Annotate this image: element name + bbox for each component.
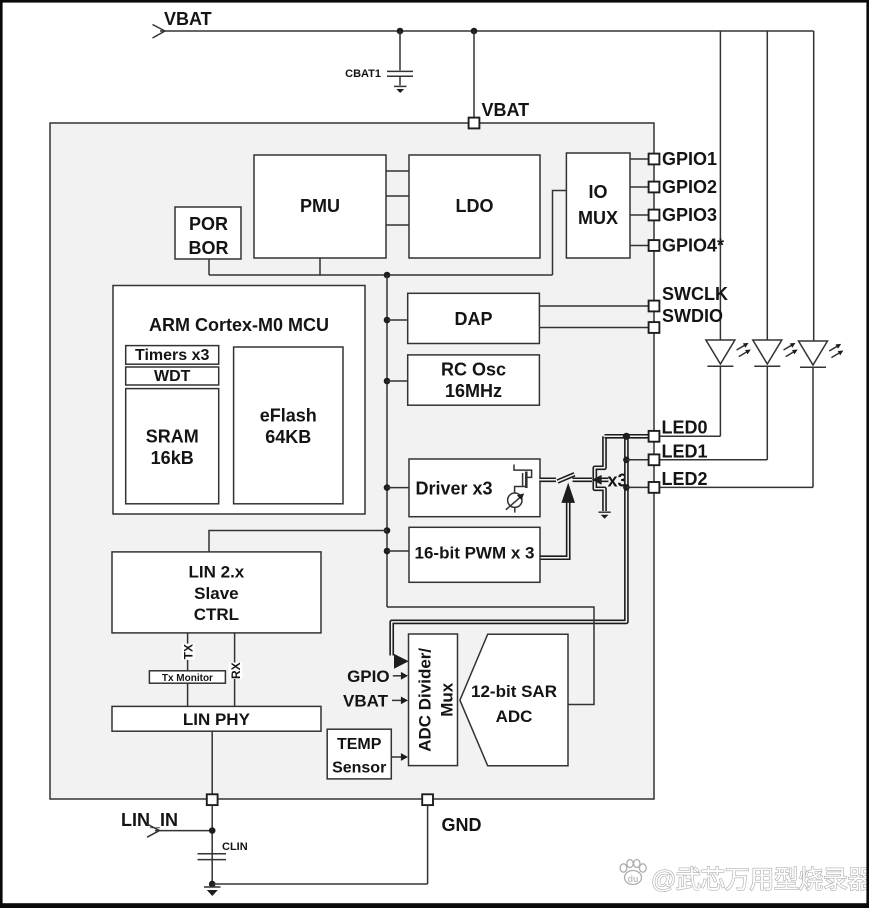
wire LED0 right xyxy=(659,435,720,437)
junction bundle top xyxy=(623,433,630,440)
capacitor CBAT1 xyxy=(387,71,413,85)
wire RC Osc stub xyxy=(387,380,408,382)
svg-text:Timers x3: Timers x3 xyxy=(135,347,210,364)
label TX xyxy=(181,644,195,660)
label VBAT adc xyxy=(343,691,389,710)
svg-text:SRAM: SRAM xyxy=(146,427,199,447)
pin GPIO4 stub xyxy=(630,245,649,247)
svg-text:LIN PHY: LIN PHY xyxy=(183,710,251,729)
svg-text:LDO: LDO xyxy=(456,196,494,216)
wire DAP stub xyxy=(387,319,408,321)
wire feedback bundle xyxy=(392,436,627,655)
svg-text:BOR: BOR xyxy=(189,238,229,258)
label LIN_IN xyxy=(121,810,178,830)
wire switch to bundle xyxy=(573,477,593,482)
pin GPIO3 xyxy=(649,205,717,225)
svg-text:SWCLK: SWCLK xyxy=(662,284,728,304)
wire power bus horizontal xyxy=(209,274,553,276)
wire LIN_IN horizontal xyxy=(155,830,212,832)
junction VBAT pin tap xyxy=(471,28,478,35)
wire driver output xyxy=(540,477,557,482)
LED D3 xyxy=(799,341,828,487)
arrow bundle into mux xyxy=(394,654,409,669)
wire RX xyxy=(234,633,236,707)
capacitor CLIN xyxy=(198,854,227,860)
LED D1 light arrows xyxy=(737,343,751,357)
svg-text:LIN 2.x: LIN 2.x xyxy=(189,563,245,582)
watermark paw du xyxy=(628,874,639,884)
LED D3 light arrows xyxy=(829,344,843,358)
junction bundle LED2 xyxy=(623,484,630,491)
svg-text:RX: RX xyxy=(229,662,243,679)
svg-text:16-bit PWM x 3: 16-bit PWM x 3 xyxy=(415,544,535,563)
svg-text:LED2: LED2 xyxy=(662,469,708,489)
block Timers x3 xyxy=(126,346,219,365)
block POR BOR xyxy=(175,207,241,259)
arrow VBAT into mux xyxy=(392,697,408,705)
LIN_IN input arrow xyxy=(147,824,160,837)
block Driver x3 xyxy=(409,459,540,517)
svg-text:CLIN: CLIN xyxy=(222,841,248,853)
block 16-bit PWM x 3 xyxy=(409,527,540,582)
svg-text:GND: GND xyxy=(442,815,482,835)
svg-text:VBAT: VBAT xyxy=(164,9,212,29)
svg-text:64KB: 64KB xyxy=(265,427,311,447)
pin GND xyxy=(422,794,433,805)
watermark paw icon xyxy=(620,860,646,885)
svg-text:12-bit SAR: 12-bit SAR xyxy=(471,682,557,701)
pin SWCLK xyxy=(649,284,728,311)
wire Driver stub xyxy=(387,487,409,489)
pin LED1 xyxy=(649,442,708,466)
block ADC Divider Mux xyxy=(409,634,458,766)
block ARM Cortex-M0 MCU xyxy=(113,286,365,515)
svg-text:Tx Monitor: Tx Monitor xyxy=(162,673,213,684)
junction Driver tap xyxy=(384,484,391,491)
junction PWM output xyxy=(536,554,543,561)
svg-text:Slave: Slave xyxy=(194,584,238,603)
bundle brace x3 xyxy=(595,436,605,511)
svg-text:ADC: ADC xyxy=(496,707,533,726)
svg-text:WDT: WDT xyxy=(154,368,191,385)
block SRAM 16kB xyxy=(126,389,219,504)
svg-text:GPIO3: GPIO3 xyxy=(662,205,717,225)
pin GPIO3 stub xyxy=(630,214,649,216)
pin GPIO2 xyxy=(649,177,717,197)
svg-text:PMU: PMU xyxy=(300,196,340,216)
ground below CBAT1 xyxy=(394,86,407,93)
wire LIN_IN down xyxy=(211,805,213,884)
arrow GPIO into mux xyxy=(393,672,408,680)
label x3 xyxy=(608,471,628,491)
wire PMU-LDO link 3 xyxy=(386,224,409,226)
block IO MUX xyxy=(566,153,630,258)
junction LIN_IN xyxy=(209,827,216,834)
wire LED supply drop 2 xyxy=(766,31,768,340)
wire PMU leg xyxy=(319,258,321,275)
svg-text:CBAT1: CBAT1 xyxy=(345,68,381,80)
wire main bus vertical xyxy=(386,275,388,607)
LED D2 light arrows xyxy=(784,343,798,357)
svg-text:16MHz: 16MHz xyxy=(445,381,502,401)
wire VBAT top rail xyxy=(160,30,814,32)
svg-text:RC Osc: RC Osc xyxy=(441,360,506,380)
pin LED2 xyxy=(649,469,708,493)
wire SWCLK xyxy=(539,305,648,307)
block DAP xyxy=(408,293,540,343)
VBAT input arrow xyxy=(153,25,166,39)
junction DAP tap xyxy=(384,317,391,324)
wire IO MUX feed xyxy=(553,191,567,276)
pin LIN_IN xyxy=(207,794,218,805)
svg-text:MUX: MUX xyxy=(578,208,618,228)
junction power bus xyxy=(384,272,391,279)
arrow TEMP into mux xyxy=(391,753,408,761)
junction CBAT1 tap xyxy=(397,28,404,35)
svg-text:LED1: LED1 xyxy=(662,442,708,462)
svg-text:GPIO2: GPIO2 xyxy=(662,177,717,197)
wire LED2 link xyxy=(626,486,813,488)
svg-text:TX: TX xyxy=(181,644,195,659)
svg-text:16kB: 16kB xyxy=(151,448,194,468)
svg-text:du: du xyxy=(628,874,639,884)
ground below brace xyxy=(599,512,611,519)
label GPIO adc xyxy=(347,667,390,686)
wire VBAT pin drop xyxy=(473,31,475,119)
wire LED0 double link xyxy=(605,434,649,439)
current source in driver xyxy=(506,493,524,513)
label CLIN xyxy=(222,841,248,853)
svg-text:LED0: LED0 xyxy=(662,418,708,438)
switch blade xyxy=(558,474,575,481)
block eFlash 64KB xyxy=(234,347,343,504)
wire SWDIO xyxy=(539,327,648,329)
arrow PWM control xyxy=(561,483,575,503)
wire PWM stub xyxy=(387,550,409,552)
wire PWM to switch xyxy=(539,503,568,558)
wire LED1 link xyxy=(626,459,767,461)
svg-text:ARM Cortex-M0 MCU: ARM Cortex-M0 MCU xyxy=(149,315,329,335)
wire LED supply drop 1 xyxy=(719,31,721,340)
block TEMP Sensor xyxy=(327,729,391,779)
junction bundle LED1 xyxy=(623,457,630,464)
watermark text xyxy=(651,866,869,894)
wire LED supply drop 3 xyxy=(813,31,815,341)
pin GPIO2 stub xyxy=(630,186,649,188)
junction LIN bus tap xyxy=(384,527,391,534)
wire POR leg xyxy=(208,259,210,275)
svg-text:Mux: Mux xyxy=(438,682,457,717)
label GND xyxy=(442,815,482,835)
junction PWM bus tap xyxy=(384,548,391,555)
svg-text:Sensor: Sensor xyxy=(332,760,386,777)
wire GND return xyxy=(212,805,427,884)
block WDT xyxy=(126,367,219,385)
svg-text:GPIO: GPIO xyxy=(347,667,390,686)
LED D1 xyxy=(706,340,735,436)
svg-text:@武芯万用型烧录器: @武芯万用型烧录器 xyxy=(651,866,869,894)
pin GPIO1 stub xyxy=(630,158,649,160)
block PMU xyxy=(254,155,386,258)
svg-text:GPIO1: GPIO1 xyxy=(662,149,717,169)
pin LED0 xyxy=(649,418,708,442)
svg-text:POR: POR xyxy=(189,214,228,234)
svg-text:GPIO4*: GPIO4* xyxy=(662,236,724,256)
chip body xyxy=(50,123,654,799)
svg-text:VBAT: VBAT xyxy=(343,691,389,710)
wire PMU-LDO link 2 xyxy=(386,195,409,197)
wire TX xyxy=(187,633,189,707)
node VBAT top label xyxy=(164,9,212,29)
block LDO xyxy=(409,155,540,258)
svg-text:ADC Divider/: ADC Divider/ xyxy=(416,648,435,752)
wire LIN ctrl to bus xyxy=(209,531,387,552)
block LIN 2.x Slave CTRL xyxy=(112,552,321,633)
label VBAT pin xyxy=(482,100,530,120)
transistor in driver xyxy=(514,465,532,493)
wire CBAT1 lead xyxy=(399,31,401,70)
pin GPIO1 xyxy=(649,149,717,169)
svg-text:TEMP: TEMP xyxy=(337,736,382,753)
block 12-bit SAR ADC xyxy=(460,634,568,766)
wire PMU-LDO link 1 xyxy=(386,170,409,172)
svg-text:VBAT: VBAT xyxy=(482,100,530,120)
svg-text:LIN_IN: LIN_IN xyxy=(121,810,178,830)
svg-text:IO: IO xyxy=(588,182,607,202)
svg-text:eFlash: eFlash xyxy=(260,406,317,426)
svg-text:DAP: DAP xyxy=(454,309,492,329)
block LIN PHY xyxy=(112,706,321,731)
svg-text:SWDIO: SWDIO xyxy=(662,306,723,326)
pin SWDIO xyxy=(649,306,723,333)
x3 leader arrow xyxy=(592,475,609,485)
ground below CLIN xyxy=(204,887,221,896)
LED D2 xyxy=(753,340,782,460)
block Tx Monitor xyxy=(149,671,225,684)
label CBAT1 xyxy=(345,68,381,80)
svg-text:Driver x3: Driver x3 xyxy=(416,479,493,499)
pin GPIO4* xyxy=(649,236,724,256)
pin VBAT xyxy=(469,118,480,129)
label RX xyxy=(229,662,243,679)
wire LIN PHY down xyxy=(211,731,213,794)
wire bus to ADC xyxy=(387,607,594,705)
junction CLIN bottom xyxy=(209,881,216,888)
junction RC Osc tap xyxy=(384,378,391,385)
block RC Osc 16MHz xyxy=(408,355,540,405)
svg-text:CTRL: CTRL xyxy=(194,605,239,624)
